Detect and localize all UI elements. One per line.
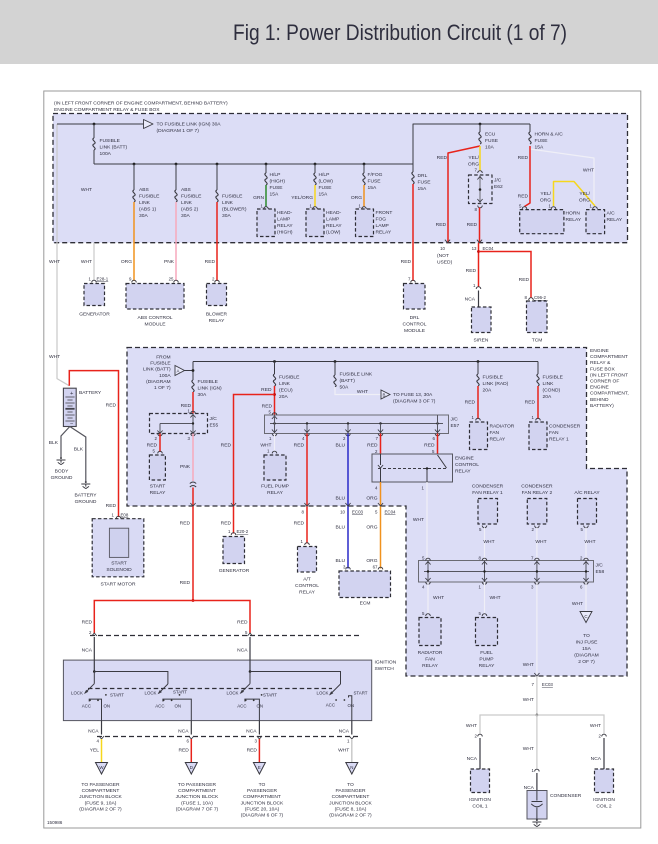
svg-text:RADIATOR: RADIATOR bbox=[418, 650, 443, 656]
svg-text:E28-1: E28-1 bbox=[97, 277, 109, 282]
svg-text:BLOWER: BLOWER bbox=[206, 312, 228, 318]
svg-text:RED: RED bbox=[401, 259, 412, 265]
svg-text:15A: 15A bbox=[368, 185, 377, 191]
svg-text:GROUND: GROUND bbox=[51, 475, 73, 481]
svg-text:COMPARTMENT: COMPARTMENT bbox=[243, 794, 281, 800]
condenser bbox=[527, 791, 547, 820]
radiator fan relay (lower) bbox=[419, 618, 441, 646]
siren bbox=[472, 307, 492, 333]
svg-text:EC04: EC04 bbox=[483, 246, 495, 251]
svg-text:CORNER OF: CORNER OF bbox=[590, 379, 619, 385]
svg-text:START: START bbox=[173, 690, 187, 695]
svg-text:RED: RED bbox=[180, 521, 191, 527]
svg-text:FROM: FROM bbox=[156, 355, 170, 361]
svg-text:15A: 15A bbox=[319, 192, 328, 198]
svg-text:RED: RED bbox=[519, 277, 530, 283]
svg-text:ON: ON bbox=[348, 703, 355, 708]
wire NCA into switch bbox=[93, 637, 95, 672]
svg-text:EC04: EC04 bbox=[385, 510, 397, 515]
fuel pump relay (box2) bbox=[264, 455, 286, 480]
svg-text:ACC: ACC bbox=[155, 704, 164, 709]
svg-text:RADIATOR: RADIATOR bbox=[490, 424, 515, 430]
svg-text:RED: RED bbox=[180, 580, 191, 586]
svg-text:PASSENGER: PASSENGER bbox=[335, 788, 366, 794]
wire riser to top right bus bbox=[413, 124, 530, 164]
svg-text:FUSIBLE: FUSIBLE bbox=[483, 375, 504, 381]
ignition switch box bbox=[63, 660, 371, 721]
svg-text:START: START bbox=[263, 693, 277, 698]
svg-text:(HIGH): (HIGH) bbox=[277, 230, 293, 236]
svg-text:LINK: LINK bbox=[279, 381, 291, 387]
svg-text:ECU: ECU bbox=[485, 132, 496, 138]
svg-text:GENERATOR: GENERATOR bbox=[219, 568, 250, 574]
wire WHT E58-3 down through EC03 bbox=[536, 582, 538, 676]
header band bbox=[0, 0, 658, 64]
svg-text:E20-2: E20-2 bbox=[237, 529, 249, 534]
DRL control module bbox=[404, 284, 426, 310]
svg-text:ENGINE: ENGINE bbox=[590, 348, 609, 354]
svg-text:10: 10 bbox=[440, 246, 445, 251]
svg-text:FUSE: FUSE bbox=[418, 180, 432, 186]
svg-text:GENERATOR: GENERATOR bbox=[79, 312, 110, 318]
svg-text:RELAY: RELAY bbox=[490, 437, 506, 443]
headlamp relay (LOW) bbox=[306, 209, 324, 237]
svg-text:FUSIBLE: FUSIBLE bbox=[100, 138, 121, 144]
svg-text:J/C: J/C bbox=[451, 417, 459, 423]
svg-text:RELAY: RELAY bbox=[455, 469, 471, 475]
svg-text:BLU: BLU bbox=[335, 525, 345, 531]
svg-text:100A: 100A bbox=[100, 151, 112, 157]
svg-text:YEL/: YEL/ bbox=[540, 191, 551, 197]
wire RED output 2 bbox=[190, 739, 192, 762]
svg-text:RED: RED bbox=[221, 521, 232, 527]
condenser fan relay 1 (box2 upper) bbox=[529, 422, 547, 450]
wire RED feed rail bbox=[94, 601, 250, 634]
H/LP (HIGH) fuse 15A bbox=[265, 164, 267, 173]
svg-text:(FUSE 1, 10A): (FUSE 1, 10A) bbox=[181, 800, 213, 806]
svg-text:SIREN: SIREN bbox=[474, 338, 489, 344]
svg-text:RED: RED bbox=[465, 400, 476, 406]
node WHT split to coils bbox=[536, 714, 539, 717]
svg-text:ORG: ORG bbox=[366, 558, 377, 564]
svg-text:RELAY: RELAY bbox=[299, 590, 315, 596]
svg-text:INJ FUSE: INJ FUSE bbox=[576, 640, 598, 646]
svg-text:ON: ON bbox=[104, 704, 111, 709]
ignition connector (top) bbox=[90, 635, 362, 637]
HORN & A/C fuse 15A bbox=[529, 124, 531, 132]
svg-text:CONDENSER: CONDENSER bbox=[521, 484, 553, 490]
A/T control relay bbox=[298, 547, 317, 573]
boundary pin 10 (not used) bbox=[445, 240, 450, 243]
svg-text:NCA: NCA bbox=[178, 729, 189, 735]
fusible link (BATT) 50A bbox=[334, 362, 336, 376]
svg-text:(DIAGRAM 3 OF 7): (DIAGRAM 3 OF 7) bbox=[393, 399, 436, 405]
wire WHT to A/C relay bbox=[530, 149, 594, 206]
svg-text:HEAD-: HEAD- bbox=[277, 210, 293, 216]
svg-text:A/T: A/T bbox=[303, 577, 311, 583]
DRL fuse 15A bbox=[412, 164, 414, 172]
mechanical link dashed bbox=[88, 688, 332, 690]
fusible link (BLOWER) 30A bbox=[216, 164, 218, 190]
wire WHT to triangle B bbox=[335, 387, 381, 395]
svg-text:(FUSE 20, 10A): (FUSE 20, 10A) bbox=[245, 806, 280, 812]
wire RED E57-7 to engine control relay pin 2 bbox=[380, 434, 382, 455]
svg-text:JUNCTION BLOCK: JUNCTION BLOCK bbox=[241, 800, 284, 806]
svg-text:NCA: NCA bbox=[339, 729, 350, 735]
node tap fog bbox=[363, 163, 366, 166]
node ignition feed split bbox=[192, 599, 195, 602]
body ground bbox=[57, 457, 66, 465]
svg-text:RED: RED bbox=[178, 748, 189, 754]
svg-text:H/LP: H/LP bbox=[319, 172, 330, 178]
wire YEL/ORG horn relay to A/C relay bbox=[554, 182, 596, 207]
svg-text:FUEL: FUEL bbox=[480, 650, 493, 656]
svg-text:START: START bbox=[354, 691, 368, 696]
svg-text:FUSIBLE: FUSIBLE bbox=[222, 194, 243, 200]
svg-text:ORG: ORG bbox=[366, 496, 377, 502]
svg-text:50A: 50A bbox=[340, 385, 349, 391]
svg-text:(DIAGRAM 1 OF 7): (DIAGRAM 1 OF 7) bbox=[157, 128, 200, 134]
wire WHT E58-4 to radiator fan relay bbox=[427, 582, 429, 615]
svg-text:COIL 1: COIL 1 bbox=[472, 804, 488, 810]
wire bus 2 bbox=[193, 361, 538, 363]
start solenoid bbox=[109, 528, 128, 557]
svg-text:BODY: BODY bbox=[55, 469, 70, 475]
svg-text:EC03: EC03 bbox=[542, 682, 554, 687]
wires NCA to bottom connector bbox=[101, 721, 103, 735]
svg-text:RED: RED bbox=[518, 194, 529, 200]
svg-text:20A: 20A bbox=[483, 388, 492, 394]
svg-text:MODULE: MODULE bbox=[145, 322, 167, 328]
svg-text:LAMP: LAMP bbox=[277, 217, 290, 223]
fusible link (IGN) 30A bbox=[192, 380, 194, 392]
svg-text:ABS: ABS bbox=[139, 187, 150, 193]
generator (lower) bbox=[223, 537, 245, 564]
switch wafer 2 bbox=[159, 684, 168, 693]
svg-text:30A: 30A bbox=[139, 213, 148, 219]
wire WHT generator bbox=[93, 243, 95, 281]
svg-text:PNK: PNK bbox=[164, 259, 175, 265]
ABS fusible link (ABS 2) 30A bbox=[175, 164, 177, 190]
svg-text:GROUND: GROUND bbox=[75, 499, 97, 505]
svg-text:COMPARTMENT: COMPARTMENT bbox=[178, 788, 216, 794]
svg-text:20A: 20A bbox=[279, 394, 288, 400]
engine control relay bbox=[372, 454, 453, 482]
svg-text:150986: 150986 bbox=[47, 820, 63, 825]
svg-text:C96-2: C96-2 bbox=[534, 295, 547, 300]
svg-text:1 OF 7): 1 OF 7) bbox=[154, 385, 171, 391]
node tap RAD link bbox=[477, 360, 480, 363]
node bus1-fuse tap bbox=[93, 123, 96, 126]
svg-text:FUSE: FUSE bbox=[270, 185, 284, 191]
svg-text:WHT: WHT bbox=[490, 595, 501, 601]
svg-text:LAMP: LAMP bbox=[376, 223, 389, 229]
svg-text:ECM: ECM bbox=[360, 601, 371, 607]
svg-text:(BATT): (BATT) bbox=[340, 378, 356, 384]
svg-text:A: A bbox=[177, 369, 180, 374]
svg-text:H/LP: H/LP bbox=[270, 172, 281, 178]
svg-text:100A: 100A bbox=[159, 373, 171, 379]
wire PNK to ABS control module bbox=[175, 202, 177, 281]
svg-text:(DIAGRAM 7 OF 7): (DIAGRAM 7 OF 7) bbox=[176, 806, 219, 812]
engine compartment relay & fuse box (box 1) bbox=[53, 114, 628, 243]
wire RED ECU link, node and branch to generator bbox=[274, 386, 276, 415]
svg-text:E: E bbox=[258, 765, 261, 770]
svg-text:15A: 15A bbox=[270, 192, 279, 198]
svg-text:J/C: J/C bbox=[596, 563, 604, 569]
svg-text:FUSE: FUSE bbox=[319, 185, 333, 191]
node tap BATT 50A link bbox=[334, 360, 337, 363]
svg-text:WHT: WHT bbox=[572, 601, 583, 607]
svg-text:LINK (BATT): LINK (BATT) bbox=[143, 367, 171, 373]
svg-text:MODULE: MODULE bbox=[404, 328, 426, 334]
svg-text:F/FOG: F/FOG bbox=[368, 172, 383, 178]
svg-text:A/C RELAY: A/C RELAY bbox=[574, 490, 600, 496]
box 2 side caption bbox=[590, 348, 629, 409]
svg-text:10A: 10A bbox=[485, 145, 494, 151]
svg-text:IGNITION: IGNITION bbox=[375, 660, 397, 666]
svg-text:RELAY: RELAY bbox=[326, 223, 342, 229]
generator bbox=[84, 284, 105, 306]
svg-text:LAMP: LAMP bbox=[326, 217, 339, 223]
E57 internal ticks bbox=[275, 415, 438, 434]
svg-text:E58: E58 bbox=[596, 569, 605, 575]
svg-text:START: START bbox=[150, 484, 166, 490]
svg-text:30A: 30A bbox=[198, 392, 207, 398]
svg-text:CONDENSER: CONDENSER bbox=[549, 424, 581, 430]
F/FOG fuse 15A bbox=[363, 164, 365, 173]
svg-text:HORN: HORN bbox=[566, 211, 581, 217]
wire WHT to E58 pin 7 bbox=[536, 528, 538, 561]
svg-text:RED: RED bbox=[221, 443, 232, 449]
svg-text:WHT: WHT bbox=[466, 723, 477, 729]
ECM bbox=[339, 571, 391, 598]
svg-text:TCM: TCM bbox=[532, 338, 543, 344]
svg-text:WHT: WHT bbox=[338, 748, 349, 754]
svg-text:RELAY 1: RELAY 1 bbox=[549, 437, 569, 443]
svg-text:FAN RELAY 2: FAN RELAY 2 bbox=[522, 490, 553, 496]
fusible link (BATT) 100A bbox=[93, 124, 95, 138]
svg-text:RELAY: RELAY bbox=[267, 490, 283, 496]
svg-text:SWITCH: SWITCH bbox=[375, 666, 395, 672]
svg-text:IGNITION: IGNITION bbox=[593, 797, 615, 803]
svg-text:(COND): (COND) bbox=[543, 388, 561, 394]
svg-text:LINK (RAD): LINK (RAD) bbox=[483, 381, 509, 387]
svg-text:RELAY: RELAY bbox=[479, 663, 495, 669]
svg-text:RELAY: RELAY bbox=[422, 663, 438, 669]
svg-text:RED: RED bbox=[367, 443, 378, 449]
svg-text:(HIGH): (HIGH) bbox=[270, 179, 286, 185]
svg-text:DRL: DRL bbox=[418, 173, 428, 179]
A/C relay top bbox=[586, 210, 605, 234]
svg-text:YEL: YEL bbox=[90, 748, 100, 754]
svg-text:BATTERY): BATTERY) bbox=[590, 403, 614, 409]
wire WHT E57-1 to fuel pump relay bbox=[274, 434, 276, 453]
radiator fan relay (box2 upper) bbox=[470, 422, 488, 450]
svg-text:FRONT: FRONT bbox=[376, 210, 393, 216]
wire RED siren bbox=[478, 243, 480, 287]
svg-text:ORG: ORG bbox=[468, 162, 479, 168]
svg-text:YEL/: YEL/ bbox=[468, 155, 479, 161]
svg-text:PNK: PNK bbox=[180, 464, 191, 470]
node tap headlamp high bbox=[265, 163, 268, 166]
svg-text:(IN LEFT FRONT: (IN LEFT FRONT bbox=[590, 372, 628, 378]
svg-text:WHT: WHT bbox=[584, 539, 595, 545]
svg-text:30A: 30A bbox=[222, 213, 231, 219]
svg-text:(ABS 1): (ABS 1) bbox=[139, 207, 156, 213]
wire ORG to front fog lamp relay bbox=[363, 185, 365, 207]
J/C E62 bbox=[469, 175, 493, 204]
svg-text:LOCK: LOCK bbox=[227, 691, 239, 696]
wire feed to switch 4 bbox=[250, 672, 341, 685]
off-page triangle C to INJ fuse bbox=[580, 612, 592, 623]
svg-text:USED): USED) bbox=[437, 260, 453, 266]
svg-text:TO: TO bbox=[347, 782, 354, 788]
svg-text:TO: TO bbox=[583, 633, 590, 639]
wire RED to condenser fan relay 1 bbox=[537, 386, 539, 419]
svg-text:E62: E62 bbox=[494, 184, 503, 190]
svg-text:NCA: NCA bbox=[88, 729, 99, 735]
H/LP (LOW) fuse 15A bbox=[314, 164, 316, 173]
svg-text:YEL/: YEL/ bbox=[579, 191, 590, 197]
svg-text:WHT: WHT bbox=[49, 354, 60, 360]
wire BLK to body ground bbox=[61, 427, 70, 458]
svg-text:FAN: FAN bbox=[549, 430, 559, 436]
svg-text:YEL/ORG: YEL/ORG bbox=[291, 195, 313, 201]
TCM bbox=[527, 301, 548, 333]
svg-text:CONTROL: CONTROL bbox=[455, 462, 479, 468]
wire WHT ECR pin1 to E58 bbox=[426, 482, 428, 561]
wire top-left bus bbox=[57, 123, 144, 125]
svg-text:(BLOWER): (BLOWER) bbox=[222, 207, 247, 213]
svg-text:START: START bbox=[111, 561, 127, 567]
svg-text:FUSIBLE: FUSIBLE bbox=[139, 194, 160, 200]
svg-text:15A: 15A bbox=[582, 646, 591, 652]
svg-text:ORG: ORG bbox=[351, 195, 362, 201]
switch wafer 3 bbox=[241, 684, 250, 693]
svg-text:WHT: WHT bbox=[357, 389, 368, 395]
svg-text:PASSENGER: PASSENGER bbox=[247, 788, 278, 794]
node tap ECU link bbox=[273, 360, 276, 363]
svg-text:(DIAGRAM 2 OF 7): (DIAGRAM 2 OF 7) bbox=[79, 806, 122, 812]
wire WHT to E58 pin 8 bbox=[484, 528, 486, 561]
svg-text:FUSE: FUSE bbox=[485, 138, 499, 144]
boundary pin 13 EC04 bbox=[477, 240, 482, 243]
svg-text:WHT: WHT bbox=[583, 168, 594, 174]
off-page triangle E bbox=[253, 763, 265, 775]
svg-text:START MOTOR: START MOTOR bbox=[101, 582, 136, 588]
ECU fuse 10A bbox=[479, 124, 481, 132]
svg-text:(DIAGRAM 2 OF 7): (DIAGRAM 2 OF 7) bbox=[329, 813, 372, 819]
condenser ground bbox=[532, 819, 541, 827]
svg-text:NCA: NCA bbox=[467, 756, 478, 762]
svg-text:J/C: J/C bbox=[210, 416, 218, 422]
svg-text:RED: RED bbox=[205, 259, 216, 265]
wire feed to switch 2 bbox=[94, 672, 168, 685]
svg-text:ACC: ACC bbox=[82, 704, 91, 709]
svg-text:HORN & A/C: HORN & A/C bbox=[535, 132, 564, 138]
node tap ABS2 bbox=[175, 163, 178, 166]
svg-text:LINK (BATT): LINK (BATT) bbox=[100, 145, 128, 151]
svg-text:ORG: ORG bbox=[121, 259, 132, 265]
svg-text:FAN RELAY 1: FAN RELAY 1 bbox=[472, 490, 503, 496]
wire RED battery to start motor bbox=[69, 371, 118, 517]
node tap headlamp low bbox=[314, 163, 317, 166]
svg-text:WHT: WHT bbox=[590, 723, 601, 729]
svg-text:CONDENSER: CONDENSER bbox=[550, 793, 582, 799]
wire BLU E57-2 to ECM bbox=[347, 434, 349, 569]
svg-text:JUNCTION BLOCK: JUNCTION BLOCK bbox=[176, 794, 219, 800]
wire YEL/ORG to headlamp relay low bbox=[314, 185, 316, 207]
svg-text:RED: RED bbox=[437, 155, 448, 161]
svg-text:RED: RED bbox=[237, 620, 248, 626]
off-page triangle B bbox=[381, 390, 390, 399]
svg-text:TO: TO bbox=[259, 782, 266, 788]
svg-text:FUSIBLE: FUSIBLE bbox=[181, 194, 202, 200]
wire GRN to headlamp relay high bbox=[265, 185, 267, 207]
svg-text:NCA: NCA bbox=[246, 729, 257, 735]
node feed 1 bbox=[93, 670, 96, 673]
wire RED from E62 pin 8 to pin 13 bbox=[479, 208, 481, 243]
svg-text:E55: E55 bbox=[210, 423, 219, 429]
svg-text:COMPARTMENT,: COMPARTMENT, bbox=[590, 391, 629, 397]
svg-text:RED: RED bbox=[467, 222, 478, 228]
svg-text:(ECU): (ECU) bbox=[279, 388, 293, 394]
svg-text:RED: RED bbox=[466, 268, 477, 274]
svg-text:(IN LEFT FRONT CORNER OF ENGIN: (IN LEFT FRONT CORNER OF ENGINE COMPARTM… bbox=[54, 101, 228, 107]
svg-text:TO PASSENGER: TO PASSENGER bbox=[81, 782, 120, 788]
svg-text:WHT: WHT bbox=[523, 662, 534, 668]
svg-text:HEAD-: HEAD- bbox=[326, 210, 342, 216]
svg-text:FUSIBLE: FUSIBLE bbox=[279, 375, 300, 381]
svg-text:DRL: DRL bbox=[410, 315, 420, 321]
svg-text:RED: RED bbox=[518, 155, 529, 161]
svg-text:RED: RED bbox=[261, 387, 272, 393]
horn relay bbox=[520, 210, 564, 234]
svg-text:LOCK: LOCK bbox=[145, 691, 157, 696]
svg-text:RELAY: RELAY bbox=[607, 217, 623, 223]
svg-text:10: 10 bbox=[340, 510, 345, 515]
svg-text:TO PASSENGER: TO PASSENGER bbox=[178, 782, 217, 788]
svg-text:EC03: EC03 bbox=[352, 510, 364, 515]
svg-text:15A: 15A bbox=[418, 186, 427, 192]
svg-text:START: START bbox=[110, 693, 124, 698]
node feed 3 bbox=[249, 670, 252, 673]
svg-text:FOG: FOG bbox=[376, 217, 387, 223]
svg-text:JUNCTION BLOCK: JUNCTION BLOCK bbox=[329, 800, 372, 806]
svg-text:LINK: LINK bbox=[181, 200, 193, 206]
wire YEL/ORG from ECU fuse to J/C E62 bbox=[479, 146, 481, 171]
ABS fusible link (ABS 1) 30A bbox=[133, 164, 135, 190]
off-page triangle A bbox=[175, 366, 185, 376]
off-page triangle TO FUSIBLE LINK (IGN) bbox=[144, 120, 154, 129]
svg-text:(DIAGRAM 6 OF 7): (DIAGRAM 6 OF 7) bbox=[241, 813, 284, 819]
svg-text:Fig 1: Power Distribution Circ: Fig 1: Power Distribution Circuit (1 of … bbox=[233, 20, 567, 45]
J/C E58 bbox=[419, 561, 594, 583]
wire WHT left drop from bus to battery bbox=[57, 124, 69, 386]
svg-text:PUMP: PUMP bbox=[479, 657, 493, 663]
wire RED to start relay bbox=[159, 434, 161, 453]
svg-text:BLU: BLU bbox=[335, 558, 345, 564]
svg-text:WHT: WHT bbox=[523, 697, 534, 703]
svg-text:LINK: LINK bbox=[139, 200, 151, 206]
svg-text:LINK: LINK bbox=[543, 381, 555, 387]
svg-text:BLK: BLK bbox=[49, 440, 59, 446]
wire ORG ECR pin4 to ECM bbox=[380, 482, 382, 569]
svg-text:67: 67 bbox=[373, 565, 378, 570]
battery bbox=[63, 388, 76, 426]
svg-text:NCA: NCA bbox=[465, 297, 476, 303]
